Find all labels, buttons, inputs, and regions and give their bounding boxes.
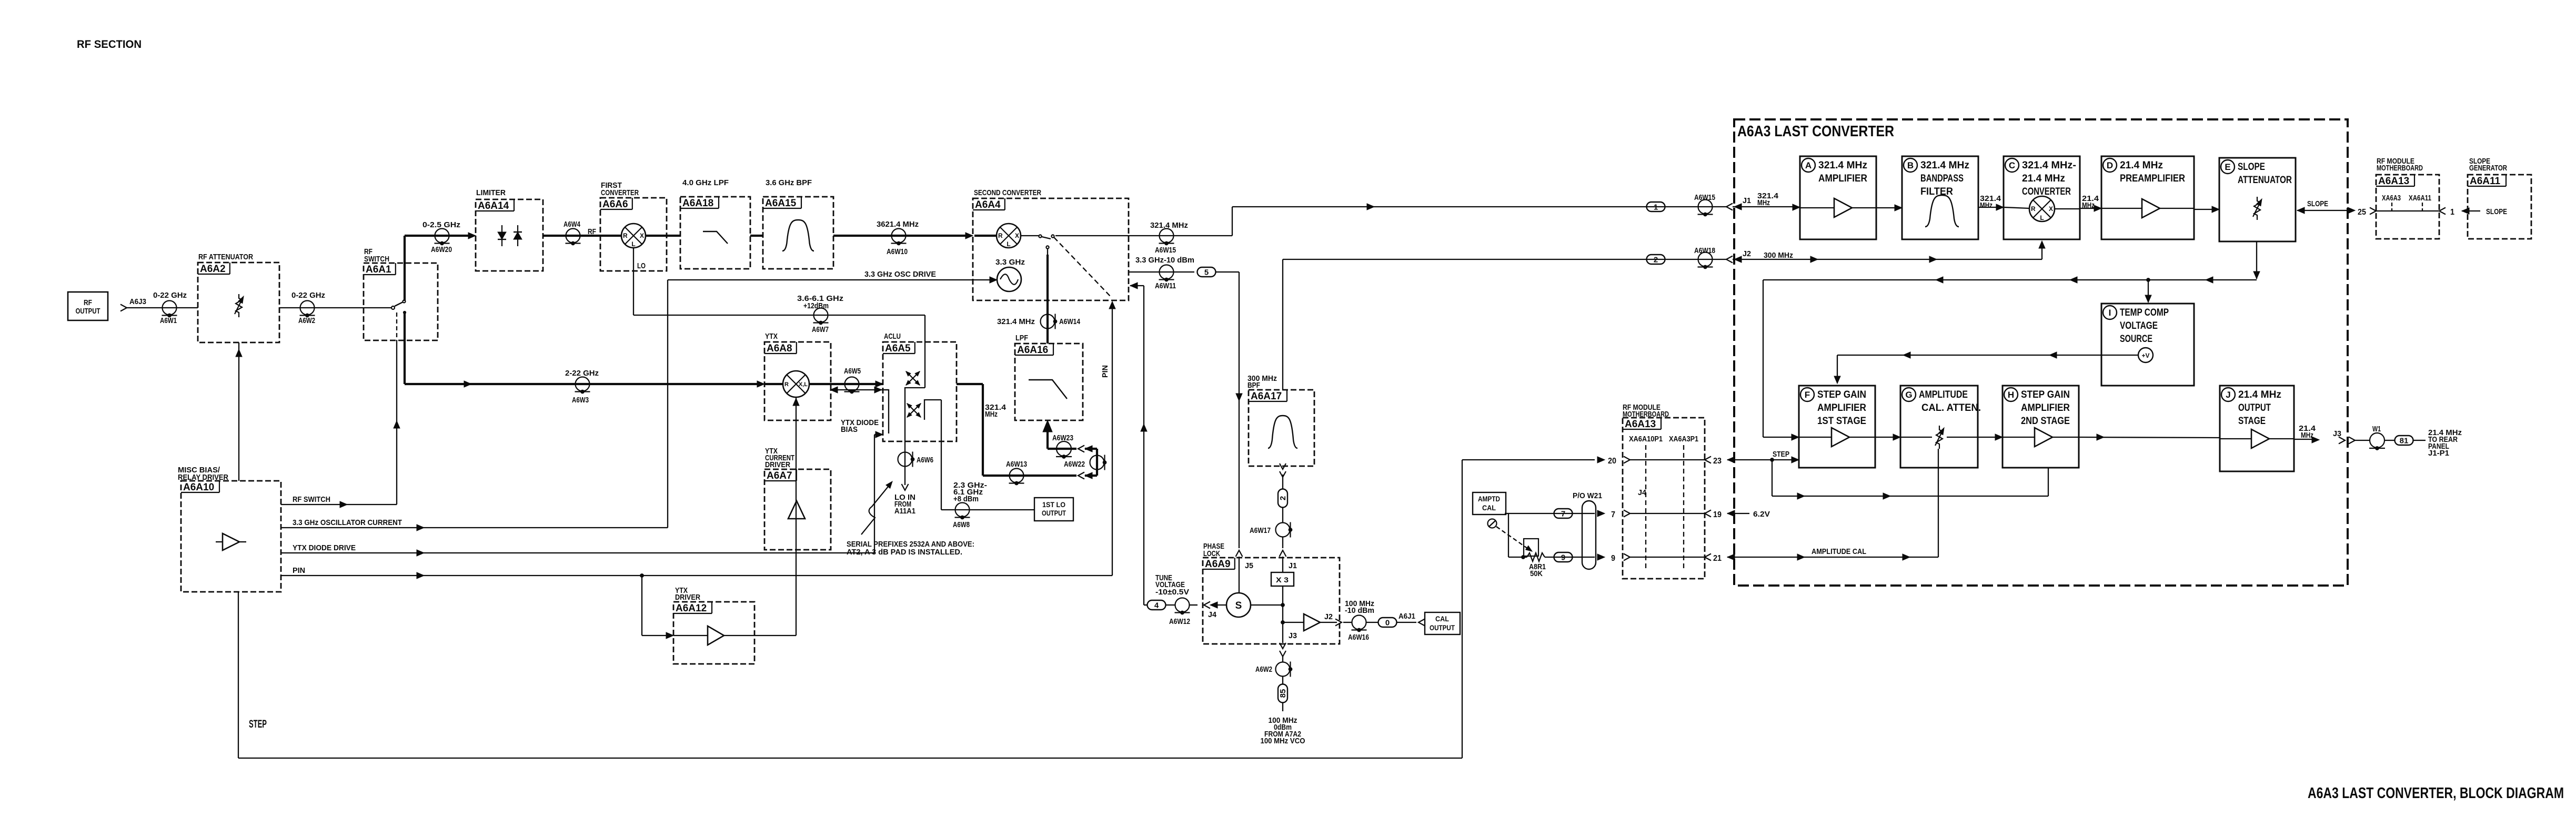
- wire RF switch control solid: [396, 340, 397, 505]
- arrow up on RF switch control: [394, 421, 400, 428]
- svg-text:H: H: [2008, 390, 2014, 400]
- sampler X upper in ACLU: [904, 370, 921, 386]
- arrow STEP branch 1: [1797, 493, 1805, 499]
- svg-text:300 MHz: 300 MHz: [1764, 251, 1793, 260]
- svg-text:3621.4 MHz: 3621.4 MHz: [877, 220, 919, 229]
- wire C to D: [2080, 208, 2095, 209]
- cable A6W11: [1159, 265, 1174, 281]
- arrow up on tune voltage riser: [1141, 424, 1147, 431]
- svg-text:MHz: MHz: [1980, 201, 1993, 210]
- svg-text:R: R: [623, 232, 628, 239]
- arrow into limiter: [468, 233, 476, 239]
- wire thick upper link: [1085, 448, 1097, 450]
- svg-text:A6W13: A6W13: [1006, 460, 1027, 469]
- svg-text:9: 9: [1611, 554, 1615, 563]
- pin 25 chevron: [2370, 208, 2376, 215]
- svg-text:J3: J3: [1289, 631, 1297, 640]
- svg-text:MHz: MHz: [985, 410, 998, 419]
- arrow amplitude cal left at boundary: [1727, 554, 1735, 560]
- block E slope attenuator: [2219, 158, 2296, 241]
- svg-text:23: 23: [1713, 457, 1722, 466]
- svg-text:21.4 MHz: 21.4 MHz: [2238, 389, 2281, 400]
- svg-text:R: R: [998, 232, 1003, 239]
- sampler X lower in ACLU: [905, 402, 922, 418]
- switch blade in A6A4: [1042, 237, 1051, 239]
- svg-text:PIN: PIN: [1101, 365, 1110, 378]
- arrow row9 into pin: [1597, 554, 1605, 560]
- svg-text:J2: J2: [1324, 612, 1333, 621]
- svg-text:1: 1: [1654, 203, 1658, 212]
- arrow up to A6A2: [236, 349, 242, 357]
- arrow row7 into pin: [1597, 510, 1605, 517]
- svg-text:A6A18: A6A18: [682, 198, 713, 209]
- junction PIN to YTX driver: [640, 574, 644, 578]
- arrow left at J4: [1210, 602, 1217, 608]
- svg-text:MHz: MHz: [2301, 431, 2313, 440]
- wire 300 MHz long run from J2: [1283, 259, 1726, 260]
- designator A6A5: [883, 342, 915, 354]
- svg-text:A6A2: A6A2: [200, 264, 226, 275]
- cable A6W18 at J2: [1698, 253, 1713, 269]
- flag 9: [1554, 552, 1573, 562]
- port box 1ST LO OUTPUT: [1034, 498, 1073, 521]
- arrow +V 1: [2049, 352, 2057, 358]
- connector stub XA6A3: [2391, 203, 2392, 211]
- svg-text:A6A13: A6A13: [1625, 419, 1656, 430]
- cable A6W15 at J1: [1698, 200, 1713, 216]
- block D 21.4 MHz preamplifier: [2101, 156, 2194, 239]
- svg-text:BIAS: BIAS: [841, 425, 858, 434]
- svg-text:AMPLIFIER: AMPLIFIER: [1818, 173, 1867, 184]
- wire H to J: [2079, 437, 2220, 438]
- arrow STEP into F box: [1792, 457, 1799, 463]
- assembly A6A4 second converter box: [973, 198, 1129, 300]
- svg-text:7: 7: [1611, 510, 1615, 519]
- svg-text:AT2, A 3 dB PAD IS INSTALLED.: AT2, A 3 dB PAD IS INSTALLED.: [847, 548, 962, 557]
- wire thick 2-22 GHz run: [405, 383, 758, 385]
- svg-text:A6A11: A6A11: [2470, 176, 2501, 187]
- svg-text:J1-P1: J1-P1: [2428, 449, 2449, 458]
- cable A6W12: [1175, 598, 1190, 614]
- wire row9 left: [1508, 557, 1527, 558]
- svg-text:A6A8: A6A8: [767, 343, 792, 354]
- port box AMPTD CAL: [1473, 492, 1506, 515]
- connector J1 chevron: [1726, 204, 1733, 210]
- arrow down on J5 riser: [1236, 394, 1242, 401]
- svg-text:I: I: [2109, 308, 2111, 318]
- wire PIN row: [281, 575, 1112, 576]
- svg-text:DRIVER: DRIVER: [675, 593, 700, 602]
- wire A6W2 to flag85: [1282, 676, 1283, 684]
- designator A6A6: [600, 198, 632, 210]
- wire G to H: [1978, 437, 1996, 438]
- svg-text:AMPLITUDE: AMPLITUDE: [1919, 389, 1968, 400]
- svg-text:2ND STAGE: 2ND STAGE: [2021, 416, 2070, 427]
- switch contact c: [1046, 246, 1049, 248]
- svg-text:81: 81: [2400, 437, 2409, 446]
- wire RF SWITCH control row: [281, 504, 397, 505]
- wire A to B: [1876, 207, 1895, 208]
- connector plane XA6A10P1 dashed: [1645, 445, 1646, 571]
- svg-text:A6W20: A6W20: [431, 245, 452, 254]
- wire amplitude cal riser into G: [1938, 449, 1939, 557]
- switch contact a: [1039, 235, 1041, 237]
- connector J4 chevron: [1204, 602, 1210, 609]
- pin 23 chevron: [1705, 457, 1711, 463]
- wire in box H: [2003, 437, 2035, 438]
- wire slope generator stub: [2462, 210, 2480, 211]
- flag 4: [1148, 600, 1166, 610]
- wire thick lower link: [1085, 475, 1097, 477]
- wire thick 321.4 down to LPF: [1047, 249, 1048, 256]
- svg-text:3.3 GHz OSC DRIVE: 3.3 GHz OSC DRIVE: [864, 270, 936, 279]
- wire lower sampler stub: [924, 400, 941, 420]
- connector A6J3 chevron: [120, 305, 127, 311]
- svg-text:XA6A10P1: XA6A10P1: [1629, 435, 1663, 443]
- svg-text:A6W2: A6W2: [1255, 665, 1272, 674]
- svg-text:A6W5: A6W5: [844, 367, 861, 376]
- assembly A6A17 300 MHz BPF box: [1249, 390, 1314, 466]
- wire J1 into box A: [1733, 206, 1793, 207]
- connector J1 chevron phase lock: [1280, 550, 1286, 557]
- svg-text:J: J: [2226, 390, 2230, 400]
- arrow left upper link: [1085, 446, 1092, 452]
- wire STEP branch riser into H: [2048, 468, 2049, 496]
- junction pot left: [1522, 556, 1525, 559]
- svg-text:AMPLITUDE CAL: AMPLITUDE CAL: [1812, 547, 1866, 556]
- svg-text:BANDPASS: BANDPASS: [1920, 173, 1964, 184]
- wire E output drop: [2256, 241, 2257, 279]
- wire PIN branch down to A6A12: [641, 576, 642, 636]
- RF OUTPUT port box: [68, 292, 108, 320]
- assembly A6A9 phase lock box: [1203, 558, 1340, 644]
- wire 300 MHz riser into C: [2041, 242, 2042, 259]
- svg-text:LOCK: LOCK: [1203, 549, 1220, 558]
- assembly A6A1 RF switch box: [364, 263, 438, 340]
- svg-text:A6W10: A6W10: [887, 247, 908, 256]
- svg-text:B: B: [1907, 160, 1914, 170]
- wire A6W17 to J1 chevron: [1282, 537, 1283, 548]
- wire STEP branch run: [1772, 496, 2048, 497]
- designator A6A1: [364, 263, 396, 275]
- arrow thick up into A6A16: [1043, 420, 1052, 432]
- wire into YTX mixer: [764, 383, 783, 385]
- wire slope into E: [2297, 210, 2340, 211]
- svg-text:+V: +V: [2141, 352, 2149, 359]
- wire +V drop into F: [1837, 355, 1838, 380]
- cable A6W13: [1009, 469, 1024, 485]
- assembly A6A13 motherboard box: [1623, 418, 1705, 579]
- cable A6W22: [1090, 455, 1106, 470]
- assembly A6A2 RF attenuator box: [198, 263, 279, 342]
- wire to W1: [2355, 440, 2370, 441]
- svg-text:3.3 GHz OSCILLATOR CURRENT: 3.3 GHz OSCILLATOR CURRENT: [293, 518, 402, 527]
- connector J2 chevron at boundary: [1726, 256, 1733, 263]
- svg-text:XA6A3: XA6A3: [2382, 194, 2401, 203]
- wire row7 left: [1508, 513, 1595, 514]
- svg-text:SECOND CONVERTER: SECOND CONVERTER: [974, 188, 1041, 197]
- svg-text:0-22 GHz: 0-22 GHz: [291, 291, 325, 300]
- svg-text:PIN: PIN: [293, 566, 305, 575]
- svg-text:A6A10: A6A10: [183, 482, 214, 493]
- svg-text:21: 21: [1713, 554, 1722, 563]
- wire 1st LO drop: [941, 400, 942, 510]
- junction at X3 column: [1281, 603, 1285, 607]
- assembly A6A12 YTX driver box: [673, 602, 754, 664]
- svg-text:CONVERTER: CONVERTER: [601, 188, 639, 197]
- arrow left lower link: [1085, 472, 1092, 479]
- svg-text:J4: J4: [1208, 610, 1217, 619]
- arrow YTX diode bias into ACLU: [876, 431, 883, 438]
- svg-text:XA6A11: XA6A11: [2409, 194, 2431, 203]
- driver amp in A6A10: [223, 533, 239, 550]
- svg-text:7: 7: [1561, 510, 1565, 519]
- dashed adjust linkage: [1496, 527, 1528, 549]
- svg-text:5: 5: [1204, 268, 1209, 277]
- svg-text:A6W3: A6W3: [572, 396, 589, 405]
- cable A6W6: [898, 452, 914, 467]
- bandpass symbol in box B: [1925, 195, 1959, 227]
- wire LO corner in ACLU: [905, 388, 925, 417]
- designator A6A13 right: [2376, 175, 2414, 187]
- attenuator symbol in box E: [2253, 197, 2264, 220]
- cable A6W1: [162, 301, 177, 317]
- arrow up into C mixer: [2039, 241, 2045, 248]
- cable A6W2: [300, 301, 315, 317]
- svg-text:STEP: STEP: [1773, 450, 1789, 459]
- svg-text:A6A3 LAST CONVERTER: A6A3 LAST CONVERTER: [1737, 123, 1894, 140]
- wire row 19 through motherboard: [1630, 513, 1705, 514]
- wire flag2 to A6W17: [1282, 507, 1283, 523]
- note squiggle arrow: [861, 484, 890, 534]
- svg-text:AMPLIFIER: AMPLIFIER: [1817, 402, 1866, 413]
- designator A6A4: [973, 198, 1005, 210]
- svg-text:BPF: BPF: [1247, 381, 1260, 390]
- wire in box J: [2220, 438, 2251, 439]
- arrow PIN up at A6A4: [1109, 301, 1115, 309]
- svg-text:MHz: MHz: [2082, 201, 2095, 210]
- svg-text:SLOPE: SLOPE: [2238, 162, 2265, 173]
- arrow thick into ACLU: [876, 381, 883, 387]
- wire in box C: [2004, 207, 2029, 208]
- wire amp to J2: [1320, 622, 1337, 623]
- designator A6A13: [1623, 418, 1661, 430]
- wire thick LPF to BPF: [750, 235, 763, 237]
- svg-text:A6J1: A6J1: [1398, 612, 1415, 621]
- svg-text:A6A6: A6A6: [602, 199, 628, 210]
- cable A6W8: [955, 503, 970, 519]
- svg-text:A6W8: A6W8: [953, 520, 970, 529]
- wire drop into box I: [2148, 280, 2149, 299]
- connector A6J1 chevron: [1418, 619, 1425, 626]
- svg-text:OUTPUT: OUTPUT: [2238, 402, 2271, 413]
- arrow +V into box F: [1834, 376, 1840, 384]
- svg-text:STAGE: STAGE: [2238, 416, 2266, 427]
- svg-text:CAL: CAL: [1435, 614, 1449, 623]
- svg-text:A6A3 LAST CONVERTER, BLOCK DIA: A6A3 LAST CONVERTER, BLOCK DIAGRAM: [2308, 785, 2564, 802]
- svg-text:1ST STAGE: 1ST STAGE: [1817, 416, 1866, 427]
- wire 25 to 1 through A6A13: [2376, 210, 2439, 211]
- svg-text:SLOPE: SLOPE: [2307, 199, 2328, 208]
- assembly A6A5 ACLU box: [883, 342, 957, 441]
- pin 1 chevron: [2439, 208, 2446, 215]
- arrow amplitude cal mid 1: [1797, 554, 1805, 560]
- wire LO into ACLU top: [924, 315, 925, 388]
- boundary A6A3 last converter: [1734, 119, 2348, 586]
- wire thick limiter to first converter: [543, 235, 600, 237]
- svg-text:SLOPE: SLOPE: [2486, 207, 2507, 216]
- wire S to J4: [1216, 604, 1226, 606]
- arrow on PIN row: [417, 572, 424, 579]
- svg-text:J5: J5: [1245, 561, 1253, 570]
- svg-text:AMPTD: AMPTD: [1478, 495, 1500, 503]
- oscillator 3.3 GHz in A6A4: [997, 267, 1021, 291]
- connector plane XA6A3P1 dashed: [1683, 445, 1684, 571]
- svg-text:F: F: [1805, 390, 1810, 400]
- svg-text:85: 85: [1279, 689, 1287, 698]
- assembly A6A8 YTX box: [764, 342, 831, 420]
- limiter diode 2: [514, 225, 522, 246]
- wire F to G: [1875, 437, 1894, 438]
- svg-text:XA6A3P1: XA6A3P1: [1669, 435, 1698, 443]
- wire thick ACLU output stub: [957, 383, 983, 385]
- arrow into box G: [1893, 434, 1900, 440]
- block I temp comp voltage source: [2101, 304, 2194, 386]
- arrow J2 left at boundary: [1734, 256, 1742, 263]
- svg-text:21.4 MHz: 21.4 MHz: [2022, 173, 2065, 184]
- wire B to C: [1978, 207, 1997, 208]
- wire A6A12 input inside: [673, 635, 708, 636]
- arrow STEP left at boundary: [1727, 457, 1735, 463]
- svg-text:321.4 MHz-: 321.4 MHz-: [2022, 160, 2076, 171]
- assembly A6A10 misc bias relay driver box: [181, 481, 281, 592]
- mixer in A6A8 YTX: [783, 371, 809, 397]
- amp triangle up in A6A7: [788, 501, 805, 519]
- connector chevron LO IN: [902, 484, 909, 490]
- cable A6W4: [566, 229, 581, 245]
- wire slope feedback run: [1763, 279, 2257, 280]
- pot A8R1 body: [1524, 539, 1538, 556]
- wire S to X3 column: [1251, 604, 1283, 606]
- arrow into YTX box: [757, 381, 764, 387]
- arrow on 321.4 long run: [1367, 204, 1374, 210]
- variable attenuator symbol in A6A2: [235, 294, 246, 317]
- svg-text:2-22 GHz: 2-22 GHz: [565, 369, 599, 378]
- wire AMPLITUDE CAL run: [1727, 557, 1938, 558]
- svg-text:A6A1: A6A1: [366, 264, 391, 275]
- arrow 300 MHz 2: [1929, 256, 1937, 263]
- port box CAL OUTPUT: [1425, 612, 1460, 634]
- cable A6W10: [891, 229, 907, 245]
- assembly A6A13 motherboard right box: [2376, 175, 2439, 239]
- svg-text:STEP GAIN: STEP GAIN: [1817, 389, 1866, 400]
- assembly A6A11 slope generator box: [2468, 175, 2531, 239]
- svg-text:A6W12: A6W12: [1169, 617, 1190, 626]
- wire A6W16 to flag0: [1366, 622, 1378, 623]
- cable bundle P/O W21: [1582, 501, 1596, 569]
- svg-text:FILTER: FILTER: [1920, 186, 1953, 197]
- wire thick YTX to ACLU: [809, 383, 883, 385]
- svg-text:C: C: [2009, 160, 2015, 170]
- flag 2 on 300 MHz run: [1647, 255, 1665, 265]
- wire tune voltage riser: [1143, 286, 1144, 605]
- svg-text:A6W6: A6W6: [917, 456, 933, 465]
- wire 3.3 GHz oscillator current row: [281, 527, 668, 528]
- pin 9 chevron: [1624, 554, 1630, 561]
- svg-text:-10 dBm: -10 dBm: [1345, 606, 1374, 615]
- wire flag0 to CAL OUTPUT: [1396, 622, 1416, 623]
- arrow into box E: [2212, 206, 2219, 213]
- arrow STEP branch 2: [1883, 493, 1890, 499]
- arrow into A6A12: [666, 632, 673, 639]
- svg-text:19: 19: [1713, 510, 1722, 519]
- wire in box F: [1799, 437, 1832, 438]
- svg-text:A6A14: A6A14: [478, 200, 509, 211]
- wire mixer to switch: [1021, 235, 1039, 236]
- wire STEP inside boundary: [1727, 459, 1797, 460]
- arrow into box A: [1793, 204, 1800, 210]
- wire STEP long run: [238, 758, 1462, 759]
- wire A6A12 output to YTX riser: [724, 635, 796, 636]
- arrow up below YTX mixer: [793, 398, 799, 406]
- arrow on YTX diode drive row: [417, 550, 424, 556]
- connector chevron at A6W13 run: [1078, 472, 1084, 479]
- wire 3.3GHz-10dBm out of A6A4: [1129, 271, 1194, 273]
- flag 85 vertical: [1278, 684, 1287, 703]
- designator A6A17: [1249, 390, 1287, 402]
- amp in A6A9: [1304, 614, 1320, 631]
- wire flag4 to riser: [1144, 604, 1148, 606]
- arrow into box F: [1792, 434, 1799, 440]
- svg-text:321.4 MHz: 321.4 MHz: [997, 317, 1035, 326]
- svg-text:RF SWITCH: RF SWITCH: [293, 495, 330, 504]
- pin 7 chevron: [1624, 510, 1630, 517]
- designator A6A9: [1203, 558, 1235, 570]
- svg-text:0-2.5 GHz: 0-2.5 GHz: [422, 220, 460, 229]
- wire X3 to junction: [1282, 586, 1283, 622]
- svg-text:A6W18: A6W18: [1694, 246, 1715, 255]
- svg-text:A6A4: A6A4: [975, 199, 1001, 210]
- wire flag81 tail: [2413, 440, 2426, 441]
- wire thick A6W23 run: [1048, 448, 1076, 450]
- svg-text:A6W14: A6W14: [1059, 317, 1081, 326]
- svg-text:MOTHERBOARD: MOTHERBOARD: [2377, 164, 2423, 173]
- svg-text:9: 9: [1561, 553, 1565, 562]
- amp in box H: [2035, 428, 2052, 447]
- cable A6W23: [1056, 441, 1072, 458]
- svg-text:6.2V: 6.2V: [1753, 510, 1770, 519]
- svg-text:RF: RF: [588, 227, 596, 236]
- flag 0: [1378, 618, 1397, 628]
- cable A6W17: [1276, 522, 1292, 538]
- wire J3 down: [1282, 622, 1283, 643]
- svg-text:A: A: [1805, 160, 1812, 170]
- connector chevron A6A17 out2: [1280, 471, 1286, 477]
- arrow into box H: [1995, 434, 2003, 440]
- wire 1st LO run: [941, 509, 1034, 510]
- wire A6A2 to RF switch: [279, 307, 391, 308]
- assembly A6A6 first converter box: [600, 198, 667, 271]
- svg-text:MOTHERBOARD: MOTHERBOARD: [1623, 410, 1669, 419]
- resistor zigzag A8R1: [1527, 553, 1545, 561]
- wire STEP feedback into pin 20: [1462, 459, 1595, 460]
- svg-text:STEP GAIN: STEP GAIN: [2021, 389, 2070, 400]
- cable A6W16: [1352, 616, 1367, 632]
- wire J2 to A6W16: [1343, 622, 1352, 623]
- wire STEP riser right: [1462, 460, 1463, 758]
- wire J5 into sampler: [1239, 557, 1240, 593]
- svg-text:OUTPUT: OUTPUT: [1430, 623, 1455, 632]
